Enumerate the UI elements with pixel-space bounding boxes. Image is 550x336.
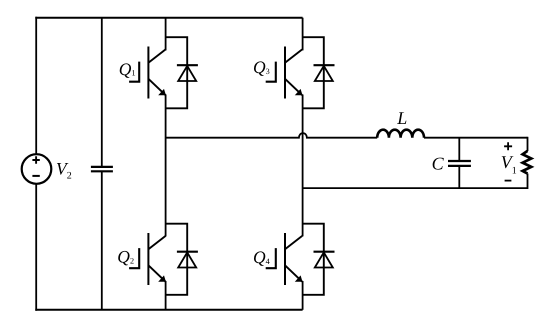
wire right leg middle (Q3 emitter to Q4 collector) (302, 95, 304, 237)
voltage source V2 minus sign (32, 175, 39, 177)
svg-text:C: C (432, 154, 445, 174)
load minus sign (505, 180, 512, 182)
transistor Q4 (266, 233, 303, 285)
capacitor C lower plate (448, 165, 471, 167)
wire bottom rail (35, 309, 302, 311)
resistor (load zigzag) (523, 151, 532, 174)
wire output with hop over right leg (166, 133, 378, 138)
diode across Q4 (302, 224, 334, 295)
wire top rail (35, 17, 302, 19)
inductor L (377, 130, 424, 138)
wire load branch bottom (527, 174, 529, 190)
wire input capacitor branch lower (101, 171, 103, 309)
capacitor (dc bus) upper plate (91, 166, 113, 168)
wire L to load top (424, 137, 528, 139)
voltage source V2 plus sign (32, 156, 39, 163)
wire right leg lower (Q4 emitter to bottom rail) (302, 281, 304, 310)
wire left branch upper (35, 17, 37, 155)
wire C branch upper (458, 138, 460, 161)
wire right leg upper (top rail to Q3) (302, 18, 304, 51)
voltage source V2 circle (22, 154, 52, 184)
diode across Q1 (166, 37, 198, 108)
svg-text:L: L (396, 108, 407, 128)
wire left leg upper (top rail to Q1) (165, 18, 167, 51)
wire input capacitor branch upper (101, 18, 103, 167)
wire load branch top (527, 137, 529, 151)
wire output return rail (303, 187, 528, 189)
load plus sign (504, 142, 512, 150)
wire left leg lower (Q2 emitter to bottom rail) (165, 281, 167, 310)
transistor Q2 (129, 233, 166, 285)
capacitor (dc bus) lower plate (91, 170, 113, 172)
diode across Q2 (166, 224, 198, 295)
capacitor C upper plate (448, 160, 471, 162)
wire left leg middle (Q1 emitter to Q2 collector) (165, 95, 167, 237)
wire C branch lower (458, 166, 460, 188)
transistor Q3 (266, 47, 303, 99)
wire left branch lower (35, 184, 37, 311)
diode across Q3 (302, 37, 334, 108)
transistor Q1 (129, 47, 166, 99)
